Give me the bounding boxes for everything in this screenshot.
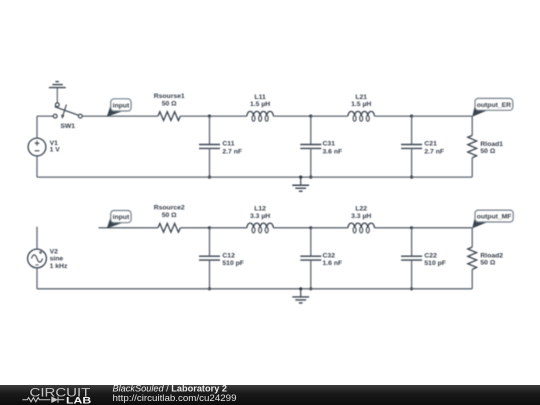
wire bottom rail row1 [37,176,472,178]
svg-text:1.5 µH: 1.5 µH [250,101,270,108]
junction C31 top [309,115,312,118]
wire C31 bottom lead [310,148,312,177]
svg-text:510 pF: 510 pF [424,260,446,267]
inductor L12 [247,223,273,233]
junction C21 bottom [410,176,413,179]
wire to L11 [210,115,247,117]
wire C32 top lead [310,228,312,256]
svg-text:L11: L11 [254,94,266,101]
wire V1 top lead [36,116,38,138]
wire input row2 [99,227,159,229]
wire C11 top lead [209,116,211,144]
ground [292,289,309,303]
wire Rload2 bottom lead [471,270,473,289]
wire bottom rail row2 [37,288,472,290]
svg-text:input: input [113,214,130,221]
wire C22 top lead [411,228,413,256]
junction C32 bottom [309,287,312,290]
svg-text:http://circuitlab.com/cu24299: http://circuitlab.com/cu24299 [113,393,237,403]
svg-text:C12: C12 [222,252,235,259]
node output_MF flag [472,210,513,228]
wire L22 to node [374,227,411,229]
wire Rsource2 to node [180,227,209,229]
svg-text:3.3 µH: 3.3 µH [351,213,371,220]
wire to Rload1 [412,115,473,117]
junction ground row1 [299,176,302,179]
capacitor C31 [300,145,321,149]
junction C31 bottom [309,176,312,179]
junction C11 bottom [208,176,211,179]
wire C12 top lead [209,228,211,256]
wire C21 bottom lead [411,148,413,177]
svg-text:3.3 µH: 3.3 µH [250,213,270,220]
resistor Rload1 [468,135,477,157]
footer bar [0,385,540,405]
svg-text:2.7 nF: 2.7 nF [424,148,444,155]
ground [292,177,309,191]
capacitor C11 [199,145,220,149]
capacitor C22 [401,256,422,260]
svg-text:50 Ω: 50 Ω [480,260,495,267]
junction C22 top [410,226,413,229]
wire to L12 [210,227,247,229]
wire SW1 to Rsourse1 [82,115,158,117]
svg-text:510 pF: 510 pF [222,260,244,267]
svg-text:L21: L21 [355,94,367,101]
junction C11 top [208,115,211,118]
svg-text:SW1: SW1 [60,123,75,130]
junction C12 bottom [208,287,211,290]
junction C21 top [410,115,413,118]
svg-text:C21: C21 [424,141,437,148]
wire to L22 [311,227,348,229]
wire to SW1 [37,115,53,117]
wire Rload1 top lead [471,116,473,135]
resistor Rload2 [468,247,477,269]
wire Rsourse1 to node [180,115,209,117]
svg-text:C22: C22 [424,252,437,259]
switch SW1 [53,103,82,119]
capacitor C12 [199,256,220,260]
svg-text:C31: C31 [323,141,336,148]
svg-text:2.7 nF: 2.7 nF [222,148,242,155]
wire C12 bottom lead [209,260,211,289]
svg-text:L22: L22 [355,206,367,213]
node output_ER flag [472,98,513,116]
svg-text:50 Ω: 50 Ω [162,100,177,107]
wire to Rload2 [412,227,473,229]
CircuitLab logo [0,383,110,405]
svg-text:C11: C11 [222,141,234,148]
svg-text:3.6 nF: 3.6 nF [323,148,343,155]
node input row2 flag [107,211,131,229]
svg-text:output_ER: output_ER [477,102,511,109]
wire to L21 [311,115,348,117]
wire L12 to node [273,227,311,229]
inductor L21 [348,111,374,121]
wire V2 bottom lead [36,268,38,289]
svg-text:Rsourse1: Rsourse1 [154,93,185,100]
voltage source V1 [28,138,46,156]
junction C12 top [208,226,211,229]
ground above SW1 [49,82,66,103]
wire C11 bottom lead [209,148,211,177]
svg-text:1.6 nF: 1.6 nF [323,260,343,267]
inductor L22 [348,223,374,233]
svg-text:Rsource2: Rsource2 [154,205,185,212]
footer text [0,383,300,405]
wire V2 top lead open [36,227,38,249]
svg-text:BlackSouled / Laboratory 2: BlackSouled / Laboratory 2 [113,384,228,394]
resistor Rsource2 [158,223,180,232]
svg-text:L12: L12 [254,206,266,213]
svg-text:V2: V2 [50,248,59,255]
svg-text:50 Ω: 50 Ω [162,212,177,219]
junction C22 bottom [410,287,413,290]
wire V1 bottom lead [36,156,38,177]
inductor L11 [247,111,273,121]
node input flag [107,99,131,117]
wire Rload1 bottom lead [471,158,473,177]
junction ground row2 [299,287,302,290]
svg-text:output_MF: output_MF [477,214,512,221]
svg-text:1 kHz: 1 kHz [50,263,68,270]
wire C31 top lead [310,116,312,144]
wire C32 bottom lead [310,260,312,289]
wire L11 to node [273,115,311,117]
capacitor C32 [300,256,321,260]
wire C21 top lead [411,116,413,144]
svg-text:50 Ω: 50 Ω [480,148,495,155]
svg-text:1.5 µH: 1.5 µH [351,101,371,108]
svg-text:1 V: 1 V [50,146,61,153]
resistor Rsourse1 [158,112,180,121]
capacitor C21 [401,145,422,149]
wire C22 bottom lead [411,260,413,289]
voltage source V2 [28,249,47,268]
svg-text:sine: sine [50,256,64,263]
wire Rload2 top lead [471,228,473,247]
svg-text:C32: C32 [323,252,336,259]
junction C32 top [309,226,312,229]
svg-text:input: input [113,103,130,110]
wire L21 to node [374,115,411,117]
